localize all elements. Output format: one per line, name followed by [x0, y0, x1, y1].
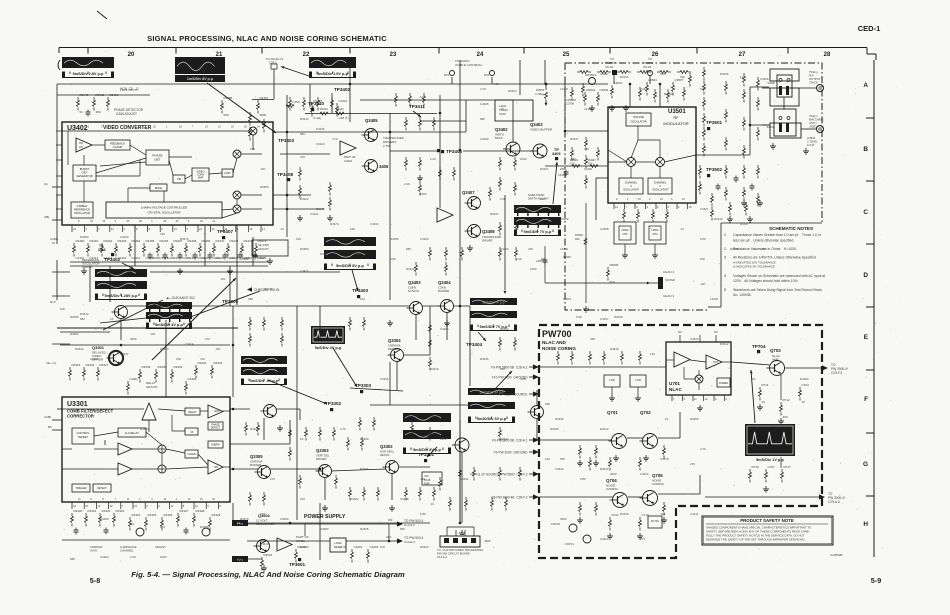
svg-text:1000: 1000	[520, 157, 527, 161]
svg-text:560: 560	[355, 252, 360, 256]
svg-text:CHANNEL: CHANNEL	[625, 181, 638, 185]
svg-text:OSCILLATOR: OSCILLATOR	[623, 189, 639, 192]
svg-text:R3410: R3410	[260, 542, 269, 546]
svg-text:TP704: TP704	[752, 344, 766, 349]
antenna switch S1303 lower	[774, 109, 796, 136]
vertical feed to W10	[504, 195, 506, 290]
svg-text:11: 11	[694, 397, 697, 401]
svg-text:820: 820	[575, 237, 580, 241]
bus y272	[150, 271, 340, 273]
U3301 internal wires	[62, 408, 144, 410]
transistor Q3406	[365, 160, 378, 173]
svg-text:C3304: C3304	[188, 377, 197, 381]
svg-text:12: 12	[188, 498, 191, 501]
waveform W4	[324, 237, 376, 246]
svg-text:TP3302: TP3302	[325, 401, 342, 406]
waveform W5	[95, 269, 147, 277]
transistor Q701	[612, 434, 627, 449]
long diagonal arrow chroma	[152, 278, 236, 360]
svg-text:R3422: R3422	[350, 497, 359, 501]
svg-text:C3410: C3410	[336, 107, 344, 111]
svg-text:1H DELAY: 1H DELAY	[125, 431, 139, 435]
svg-text:R3316: R3316	[72, 363, 81, 367]
parts below W1	[77, 97, 79, 100]
svg-text:R3490: R3490	[70, 332, 79, 336]
svg-text:C3441: C3441	[690, 512, 699, 516]
U3402 fb box	[173, 175, 185, 183]
svg-text:R3505: R3505	[610, 263, 619, 267]
svg-text:F9·PW5800-5B C28-A.1: F9·PW5800-5B C28-A.1	[492, 438, 528, 442]
svg-text:3300: 3300	[560, 517, 567, 521]
svg-text:560: 560	[560, 457, 565, 461]
svg-text:100: 100	[380, 545, 385, 549]
svg-text:3300: 3300	[130, 337, 137, 341]
svg-text:VIDEO BUFFER: VIDEO BUFFER	[530, 128, 553, 132]
svg-text:CORING: CORING	[652, 482, 665, 486]
PW700 q70x parts	[579, 445, 581, 448]
svg-text:R3483: R3483	[320, 527, 329, 531]
svg-text:R3328: R3328	[196, 509, 205, 513]
svg-text:11: 11	[127, 498, 130, 501]
svg-text:5mS/Div 7V p-p: 5mS/Div 7V p-p	[482, 301, 505, 305]
svg-text:L702: L702	[609, 378, 615, 382]
svg-text:560: 560	[400, 527, 405, 531]
svg-text:26: 26	[176, 220, 179, 223]
svg-text:R3455: R3455	[390, 237, 399, 241]
svg-text:R3329: R3329	[212, 513, 221, 517]
svg-text:100: 100	[420, 95, 425, 99]
svg-text:SW/DET: SW/DET	[78, 435, 89, 439]
components under U3402	[73, 243, 75, 246]
U3402 limit box	[222, 169, 233, 177]
svg-text:DRIVER: DRIVER	[316, 457, 327, 461]
svg-text:C3441: C3441	[460, 477, 469, 481]
svg-text:C5-23: C5-23	[643, 65, 652, 69]
svg-text:CORRECTOR: CORRECTOR	[67, 414, 94, 419]
svg-text:14: 14	[212, 220, 215, 223]
svg-text:TRAP: TRAP	[499, 112, 506, 116]
svg-text:J300: J300	[484, 539, 491, 543]
U3402 3.58MHz osc box	[71, 202, 93, 218]
svg-text:Q3408: Q3408	[482, 229, 495, 234]
svg-text:R3490: R3490	[690, 417, 699, 421]
svg-text:1/2 W: 1/2 W	[807, 143, 815, 147]
connector label black 1	[232, 520, 248, 526]
svg-text:5uS/Div 4V p-p: 5uS/Div 4V p-p	[315, 346, 342, 350]
svg-text:3.58MHz: 3.58MHz	[76, 204, 88, 208]
arrow W7 to TP3302	[268, 380, 327, 404]
PW700 dashed boundary	[539, 325, 822, 558]
U3301 phase detect box	[208, 422, 223, 430]
svg-text:R3426: R3426	[360, 467, 369, 471]
svg-text:DETECT: DETECT	[211, 427, 221, 430]
arrow W4 to TP3403b	[352, 270, 358, 291]
svg-text:LIMIT: LIMIT	[224, 172, 231, 175]
svg-text:R3460: R3460	[76, 239, 85, 243]
U3402 crystal osc box	[106, 202, 222, 218]
svg-text:C3432: C3432	[182, 256, 190, 260]
svg-text:11: 11	[78, 498, 81, 501]
svg-text:DELAY: DELAY	[188, 410, 197, 414]
svg-text:OUT: OUT	[713, 361, 719, 364]
transistor Q3601	[257, 540, 270, 553]
svg-text:.001: .001	[150, 332, 156, 336]
svg-text:DEGRADE THE SAFETY OF THE SET: DEGRADE THE SAFETY OF THE SET THROUGH IM…	[706, 538, 806, 542]
svg-text:680: 680	[480, 117, 485, 121]
svg-text:TP3502: TP3502	[706, 167, 723, 172]
svg-text:C14-E.2: C14-E.2	[404, 540, 415, 544]
grid tick 4	[438, 48, 440, 54]
svg-text:22: 22	[171, 504, 174, 508]
svg-text:R3502: R3502	[575, 233, 583, 237]
svg-text:Q701: Q701	[607, 410, 618, 415]
svg-text:C3408: C3408	[100, 517, 109, 521]
svg-text:R3470: R3470	[216, 239, 225, 243]
svg-text:1K: 1K	[665, 417, 669, 421]
svg-text:SOUND: SOUND	[665, 278, 675, 282]
TP3302	[330, 408, 333, 411]
svg-text:C29-F.3: C29-F.3	[831, 371, 842, 375]
U3501 ch4 osc box	[648, 178, 672, 194]
svg-text:7: 7	[673, 397, 675, 401]
svg-text:3409: 3409	[552, 152, 560, 156]
svg-text:7: 7	[122, 504, 124, 508]
svg-text:.01: .01	[500, 107, 504, 111]
scan speckle noise	[628, 483, 629, 484]
TP3410	[311, 108, 314, 111]
svg-text:TP3301: TP3301	[418, 452, 435, 457]
svg-text:DRIVER: DRIVER	[482, 239, 493, 243]
svg-text:R3472: R3472	[244, 239, 253, 243]
transistor Q702	[643, 434, 658, 449]
U3301 amp1 triangle	[142, 403, 156, 420]
grid tick 0	[87, 48, 89, 54]
svg-text:ADJUST: ADJUST	[258, 247, 269, 251]
svg-text:R3323: R3323	[116, 509, 125, 513]
svg-text:TP3411: TP3411	[409, 104, 425, 109]
transistor Q3310	[531, 406, 544, 419]
svg-text:C14-6.2: C14-6.2	[404, 523, 415, 527]
svg-text:120: 120	[545, 457, 550, 461]
svg-text:39K: 39K	[96, 110, 101, 114]
transistor Q3403vb	[533, 144, 547, 158]
svg-text:390: 390	[783, 415, 788, 419]
svg-text:8: 8	[149, 227, 151, 231]
svg-text:L3503: L3503	[652, 229, 660, 232]
svg-text:4: 4	[139, 498, 141, 501]
svg-text:23: 23	[390, 52, 397, 58]
jack wires	[799, 87, 816, 89]
chroma sig arrow	[247, 287, 252, 291]
power connector J3601	[440, 536, 480, 547]
svg-text:R3463: R3463	[118, 239, 127, 243]
svg-text:28: 28	[824, 52, 831, 58]
grid letter tick	[866, 495, 874, 497]
svg-text:15: 15	[638, 198, 641, 201]
svg-text:AMP: AMP	[772, 358, 779, 362]
svg-text:NLAC: NLAC	[669, 387, 682, 392]
U3301 amp4 triangle	[118, 463, 132, 475]
svg-text:680: 680	[406, 247, 411, 251]
U3402 vca box	[192, 168, 209, 181]
svg-text:3: 3	[207, 504, 209, 508]
misc parts mid top	[311, 103, 313, 106]
svg-text:4: 4	[726, 397, 728, 401]
U3301 small box1	[185, 428, 198, 435]
svg-text:270: 270	[270, 477, 275, 481]
RF top row parts	[577, 71, 580, 73]
arrow W2 to TP3403	[207, 83, 276, 133]
svg-text:2.2K: 2.2K	[500, 197, 506, 201]
svg-text:TP3408: TP3408	[277, 172, 294, 177]
svg-text:Waveforms are Taken Using Sign: Waveforms are Taken Using Signal from Te…	[733, 288, 822, 292]
svg-text:R3339: R3339	[142, 365, 151, 369]
svg-text:S340F: S340F	[767, 81, 775, 85]
svg-text:R3455: R3455	[70, 315, 79, 319]
svg-text:C3426: C3426	[555, 467, 564, 471]
TP3501	[707, 127, 710, 130]
PW700 below scope parts	[749, 469, 751, 472]
U3301 sum2	[158, 465, 166, 473]
top grid border	[59, 47, 867, 49]
W1 left hook	[58, 60, 60, 70]
svg-text:CR702: CR702	[551, 522, 561, 526]
svg-text:POWER SUPPLY: POWER SUPPLY	[304, 514, 346, 520]
svg-text:F5·+11.2V SOURCE: F5·+11.2V SOURCE	[498, 392, 527, 396]
PW700 bot parts	[609, 517, 611, 520]
product safety note box	[702, 516, 833, 545]
svg-text:R3440: R3440	[714, 217, 723, 221]
svg-text:47K: 47K	[760, 247, 765, 251]
svg-text:C3426: C3426	[690, 337, 699, 341]
U3501 mixer ch3	[627, 158, 636, 167]
svg-text:TP3501: TP3501	[706, 120, 723, 125]
ground symbols	[83, 268, 85, 271]
svg-text:8: 8	[136, 227, 138, 231]
svg-text:Q702: Q702	[640, 410, 651, 415]
waveform W12	[403, 413, 451, 422]
svg-text:10: 10	[195, 504, 198, 508]
svg-text:All Resistors are 1/4W 5%. Unl: All Resistors are 1/4W 5%. Unless Otherw…	[733, 256, 816, 260]
svg-text:3: 3	[630, 184, 632, 188]
U701 mixer	[695, 375, 703, 383]
svg-text:25: 25	[563, 52, 570, 58]
svg-text:C3433: C3433	[280, 517, 289, 521]
U701 pins	[671, 395, 673, 401]
U3301 amp2 triangle	[208, 405, 223, 418]
svg-text:R3503: R3503	[536, 88, 544, 92]
svg-text:24: 24	[111, 227, 114, 231]
svg-text:12: 12	[705, 397, 708, 401]
svg-text:2500: 2500	[560, 167, 566, 171]
svg-text:F9·PW 3000 GROUND: F9·PW 3000 GROUND	[494, 450, 529, 454]
svg-text:R3324: R3324	[132, 513, 141, 517]
svg-text:Capacitance Values Greater tha: Capacitance Values Greater than 1.0 are …	[733, 233, 822, 237]
svg-text:R3490: R3490	[360, 437, 369, 441]
svg-text:R3446: R3446	[264, 287, 273, 291]
svg-text:5mV: 5mV	[50, 300, 56, 304]
transistor Q3305	[258, 466, 271, 479]
svg-text:7: 7	[626, 205, 628, 209]
svg-text:C5-23: C5-23	[605, 65, 614, 69]
antenna switch S1302 upper	[770, 69, 799, 81]
svg-text:hi-adj: hi-adj	[314, 116, 322, 120]
svg-text:PRODUCT SAFETY NOTE: PRODUCT SAFETY NOTE	[740, 518, 794, 523]
svg-text:U701: U701	[669, 381, 680, 386]
svg-text:1000: 1000	[160, 555, 167, 559]
svg-text:◀—GUIDANCE SIG.: ◀—GUIDANCE SIG.	[166, 296, 196, 300]
U701 amp2	[706, 355, 722, 369]
svg-text:470: 470	[610, 280, 615, 284]
svg-text:EDGE: EDGE	[155, 186, 163, 190]
svg-text:27: 27	[739, 52, 746, 58]
svg-text:5-8: 5-8	[90, 576, 100, 585]
svg-text:GAIN: GAIN	[90, 549, 97, 553]
svg-text:.047: .047	[700, 282, 706, 286]
svg-text:(3B): (3B)	[44, 215, 49, 219]
waveform W6	[146, 302, 192, 309]
waveform W7	[241, 356, 287, 364]
svg-text:9: 9	[715, 397, 717, 401]
svg-text:Q3402: Q3402	[495, 127, 508, 132]
svg-text:C3415: C3415	[300, 545, 309, 549]
svg-text:5.6K: 5.6K	[700, 87, 706, 91]
svg-text:R32: R32	[484, 73, 490, 77]
svg-text:R3437: R3437	[540, 167, 549, 171]
RF top extra parts	[571, 87, 573, 90]
svg-text:C3415: C3415	[660, 457, 669, 461]
svg-text:R3440: R3440	[664, 92, 673, 96]
svg-text:47K: 47K	[528, 247, 533, 251]
U701 power box	[717, 378, 730, 387]
PW700 out line2	[705, 496, 819, 498]
svg-text:C3414: C3414	[500, 437, 509, 441]
svg-text:15K: 15K	[350, 227, 355, 231]
svg-text:C: C	[863, 209, 868, 216]
U3402 input amp	[76, 138, 92, 152]
svg-text:21: 21	[218, 126, 221, 129]
TP704	[757, 350, 760, 353]
svg-text:TP3303: TP3303	[355, 383, 372, 388]
svg-text:F9·PW 5800-5B C28-A.1: F9·PW 5800-5B C28-A.1	[491, 365, 528, 369]
svg-text:C3437: C3437	[640, 87, 649, 91]
svg-text:120V. All Voltages should ho: 120V. All Voltages should hold within 10…	[733, 279, 799, 283]
svg-text:C3414: C3414	[185, 342, 194, 346]
svg-text:C3421: C3421	[558, 173, 566, 177]
svg-text:R3435: R3435	[320, 252, 329, 256]
svg-text:R3422: R3422	[508, 89, 517, 93]
PW700 filter parts	[604, 375, 620, 387]
svg-text:Q3303: Q3303	[316, 448, 329, 453]
IC U3301 outline	[62, 397, 230, 502]
svg-text:5mS/ON: 5mS/ON	[408, 289, 419, 293]
svg-text:R3440: R3440	[620, 75, 629, 79]
svg-text:1000: 1000	[516, 207, 523, 211]
svg-text:.047: .047	[540, 257, 546, 261]
TP3601	[298, 558, 301, 561]
svg-text:15K: 15K	[160, 232, 165, 236]
svg-text:8: 8	[668, 205, 670, 209]
svg-text:D: D	[863, 272, 868, 279]
svg-text:JTACK: JTACK	[809, 81, 818, 85]
bus y166 to U3501	[545, 165, 608, 167]
svg-text:24: 24	[174, 227, 177, 231]
svg-text:DIF: DIF	[388, 518, 393, 522]
waveform W8 scope photo	[311, 326, 345, 344]
svg-text:R3469: R3469	[202, 239, 211, 243]
U3402 mixer top	[249, 127, 257, 135]
svg-text:2.2K: 2.2K	[130, 555, 136, 559]
arrow W9 to TP3409	[553, 162, 557, 204]
svg-text:270: 270	[690, 462, 695, 466]
channel oscillator tank circuits	[623, 209, 625, 212]
svg-text:18: 18	[244, 126, 247, 129]
svg-text:R3440: R3440	[614, 315, 623, 319]
svg-text:270: 270	[640, 537, 645, 541]
subcircuit box SE3405	[252, 240, 288, 256]
svg-text:1K: 1K	[110, 317, 114, 321]
svg-text:.01: .01	[430, 502, 434, 506]
svg-text:C3414: C3414	[132, 256, 141, 260]
svg-text:3406: 3406	[379, 164, 389, 169]
svg-text:19: 19	[249, 227, 252, 231]
svg-text:R3483: R3483	[80, 235, 89, 239]
svg-text:R3468: R3468	[188, 239, 197, 243]
svg-text:G: G	[863, 461, 868, 468]
svg-text:R3426: R3426	[250, 427, 259, 431]
grid letter tick	[866, 180, 874, 182]
waveform W11	[468, 388, 515, 395]
svg-text:TP3407: TP3407	[217, 229, 234, 234]
transistor Q3304	[391, 349, 404, 362]
svg-text:24: 24	[212, 227, 215, 231]
svg-text:OSCILLATOR: OSCILLATOR	[74, 211, 90, 215]
schematic notes boundary	[721, 222, 822, 224]
svg-text:H: H	[863, 521, 868, 528]
svg-text:R3464: R3464	[132, 239, 141, 243]
svg-text:15: 15	[90, 220, 93, 223]
RF mid parts	[585, 137, 587, 140]
transistor Q3405	[365, 129, 378, 142]
arrow W12 to TP3301	[427, 447, 437, 457]
svg-text:C3420: C3420	[480, 137, 489, 141]
svg-text:C704: C704	[802, 383, 810, 387]
shield top components	[611, 85, 613, 88]
svg-text:R3446: R3446	[720, 72, 729, 76]
svg-text:R3412: R3412	[720, 342, 729, 346]
svg-text:CHAN 4: CHAN 4	[663, 270, 674, 274]
svg-text:FB: FB	[177, 177, 181, 181]
grid letter tick	[866, 369, 874, 371]
power parts	[261, 557, 263, 560]
svg-text:R3446: R3446	[610, 347, 619, 351]
svg-text:SOUND: SOUND	[633, 115, 645, 119]
U3402 burst gate generator box	[73, 165, 96, 181]
svg-text:C3408: C3408	[316, 207, 325, 211]
svg-text:DETAIL: DETAIL	[380, 453, 390, 457]
svg-text:POWER: POWER	[719, 382, 728, 385]
svg-text:8: 8	[78, 220, 80, 223]
svg-text:C3433: C3433	[90, 357, 99, 361]
svg-text:33K: 33K	[545, 402, 550, 406]
svg-text:1K: 1K	[752, 377, 756, 381]
svg-text:TP3402: TP3402	[334, 87, 351, 92]
svg-text:8: 8	[219, 504, 221, 508]
svg-text:2: 2	[158, 504, 160, 508]
U3301 amp5 triangle	[208, 460, 223, 474]
transistor Q3403	[410, 302, 423, 315]
power opamp	[277, 538, 292, 551]
